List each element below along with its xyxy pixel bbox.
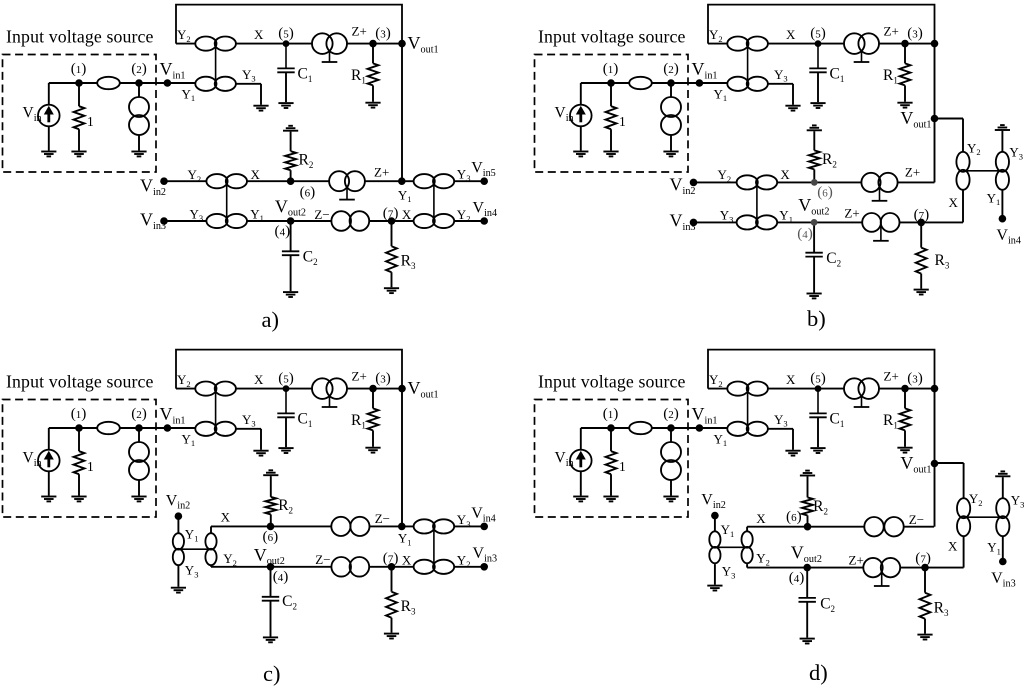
svg-text:Z+: Z+ [884,369,899,384]
nullator pair X-Y2 right (a) [414,214,455,228]
resistor R2 (a) [285,151,296,170]
node (7) (d) [921,564,929,572]
node Vout1 (d) [931,460,939,468]
node Vin1 (d) [696,424,704,432]
node Vin3 (c) [480,563,488,571]
wire node(5)-C1 (c) [285,389,287,414]
wire left pair to ground (d) [714,564,716,585]
wire node(2)-norator (a) [138,83,140,98]
norator at node(2) (d) [661,442,681,480]
wire Vin2 lead (d) [714,516,716,531]
resistor R1 (d) [900,408,911,430]
ground under C1 (a) [278,103,293,108]
wire X to node(3) (b) [768,43,935,45]
svg-text:Input voltage source: Input voltage source [538,27,686,47]
nullator (1)-(2) (b) [629,77,652,89]
nullator pair Y3-Y1 vert (d) [996,498,1009,536]
norator Z+ row2 (b) [861,173,897,201]
nullator pair Y2-X (d) [727,382,768,396]
norator at node(2) (b) [661,97,681,135]
node (1) (a) [75,79,83,87]
ground under C2 (d) [800,639,815,644]
wire R2-node(6) (c) [270,514,272,526]
wire ground-R2 (a) [290,132,292,152]
ground above Y3 pair (b) [995,125,1010,130]
wire corner down (b) [934,44,936,119]
node Vin4 (a) [480,217,488,225]
nullator pair Y3-Y1 vert (b) [996,152,1009,190]
node (2) (b) [667,79,675,87]
wire Vout1 right (d) [934,462,964,464]
current source Vin (a) [38,105,60,127]
svg-text:Input voltage source: Input voltage source [6,27,154,47]
node (7) (b) [917,219,925,227]
norator Z- row3 (c) [331,557,369,577]
wire pair connector (a) [215,44,217,84]
feedback wire (b) [708,5,935,44]
wire Y3 out (a) [236,83,262,85]
wire X to node(3) (a) [236,43,403,45]
svg-text:X: X [254,372,264,387]
resistor 1 (a) [74,106,85,129]
svg-text:X: X [251,167,261,182]
nullator pair Y3-Y1 mid (b) [737,215,778,229]
nullator pair Y1-Y3 (c) [195,422,236,436]
node (4) Vout2 (b) [811,219,818,226]
svg-text:Z+: Z+ [352,24,367,39]
input source dashed box (b) [535,55,689,173]
norator at node(2) (a) [129,97,149,135]
capacitor C1 (c) [277,413,294,417]
ground under R3 (a) [384,288,399,293]
svg-text:c): c) [263,661,280,686]
wire R1-ground (b) [904,85,906,101]
wire Vin top (c) [48,428,50,450]
ground under C1 (b) [810,103,825,108]
wire ground-Y3 pair (d) [1002,477,1004,498]
svg-text:X: X [402,553,412,568]
ground under R1 (a) [365,103,380,108]
svg-text:Input voltage source: Input voltage source [6,372,154,392]
node (3) (d) [901,385,909,393]
wire X down to node(7) (b) [962,190,964,223]
ground under C2 (c) [263,637,278,642]
norator Z- row2 (d) [864,517,903,536]
node (5) (b) [815,40,822,47]
ground above R2 (c) [263,470,278,475]
nullator pair Y1-Y3 vert (d) [709,531,720,563]
nullator pair Y2-X mid (a) [206,174,247,188]
wire Y3 down (c) [260,429,262,450]
wire Y1 down to Vin3 (d) [1002,536,1004,561]
input source dashed box (a) [3,55,157,173]
node Vin3 (a) [160,217,168,225]
node (4) Vout2 (a) [287,217,295,225]
wire Y2 in (d) [708,388,728,390]
wire node(1)-node(2)-Vin1 (d) [581,427,728,429]
nullator pair Y2-X vert (d) [957,498,970,536]
svg-text:X: X [948,538,958,553]
norator Z+ top (b) [844,33,879,62]
input source dashed box (c) [3,400,157,518]
wire C1-ground (c) [285,417,287,447]
svg-text:X: X [786,372,796,387]
node (7) (a) [388,217,396,225]
input source dashed box (d) [535,400,689,518]
ground under left pair (c) [171,588,186,593]
ground under norator (a) [131,152,146,157]
wire resistor-ground (c) [78,474,80,495]
resistor R3 (b) [916,248,927,274]
resistor R3 (a) [386,246,397,272]
resistor R2 (d) [802,497,813,515]
wire R1-ground (c) [372,430,374,446]
wire C2-ground (a) [290,255,292,291]
wire vert pair connector (c) [178,548,211,550]
wire R2-node(6) (d) [807,515,809,526]
wire R2-node(6) (a) [290,170,292,181]
node Vin3 (b) [690,219,698,227]
node (5) (c) [283,385,290,392]
current source Vin (c) [38,450,60,472]
svg-text:1: 1 [87,114,94,129]
wire row Vin3 (a) [164,220,484,222]
ground under resistor 1 (b) [603,152,618,157]
ground under Vin (b) [573,152,588,157]
svg-text:Z+: Z+ [844,206,859,221]
svg-text:1: 1 [619,114,626,129]
ground above R2 (a) [283,126,298,131]
node Vin2 (b) [690,179,698,187]
svg-text:Z+: Z+ [352,369,367,384]
wire down to Y2 pair (b) [962,119,964,152]
nullator pair X-Y2 vert (c) [205,533,216,565]
node Y1 (c) [398,523,406,531]
wire pair connector (b) [747,44,749,84]
wire Y1 down to Vin4 (b) [1001,190,1003,219]
svg-text:Z+: Z+ [849,552,864,567]
node Vin1 (b) [696,79,704,87]
svg-text:d): d) [809,660,828,685]
wire Vin top (b) [580,83,582,105]
ground under norator (b) [663,152,678,157]
wire node(4)-C2 (a) [290,221,292,251]
wire Y3 out (b) [768,83,794,85]
node Vin4 (b) [999,215,1007,223]
resistor 1 (d) [606,451,617,474]
wire C2-ground (c) [270,601,272,637]
ground under Vin (c) [41,497,56,502]
wire node(4)-C2 (b) [813,222,815,252]
nullator (1)-(2) (a) [97,77,120,89]
wire node(5)-C1 (b) [817,44,819,69]
wire node(1)-resistor (b) [610,83,612,106]
node (3) (c) [369,385,377,393]
wire node(7)-R3 (c) [391,567,393,592]
wire Vin top (d) [580,428,582,450]
capacitor C2 (d) [799,598,816,602]
wire Y3 out (d) [768,428,794,430]
wire Vin bottom (d) [580,471,582,495]
wire X pair up (c) [210,526,212,532]
wire node(1)-resistor (a) [78,83,80,106]
wire R1-ground (d) [904,430,906,446]
wire resistor-ground (a) [78,129,80,150]
node (5) (d) [815,385,822,392]
resistor R2 (b) [809,150,820,169]
ground under norator (d) [663,497,678,502]
ground at Y3 (a) [253,106,268,111]
node Vin2 (a) [160,177,168,185]
wire Vout1 down (a) [401,44,403,182]
wire row Vin2 (a) [164,180,402,182]
svg-text:Z−: Z− [909,512,924,527]
wire node(3)-R1 (d) [904,389,906,409]
wire Vin top (a) [48,83,50,105]
ground at Y3 (c) [253,451,268,456]
node Vout1 (c) [398,385,406,393]
node Vin1 (c) [164,424,172,432]
wire Vout1 right (b) [935,118,964,120]
junction node (b) [931,40,939,48]
wire node(3)-R1 (b) [904,44,906,64]
wire node(4)-C2 (d) [806,568,808,598]
feedback wire (a) [176,5,402,44]
ground at Y3 (b) [785,106,800,111]
wire pair connector right (c) [433,526,435,566]
wire R1-ground (a) [372,85,374,101]
wire node(5)-C1 (a) [285,44,287,69]
wire node(2)-norator (b) [670,83,672,98]
capacitor C1 (b) [809,68,826,72]
node (1) (b) [607,79,615,87]
ground under Vin (d) [573,497,588,502]
wire down to Y2 pair (d) [963,463,965,498]
wire pair connector mid (a) [226,181,228,221]
wire resistor-ground (d) [610,474,612,495]
node (6) (d) [804,523,812,531]
node (1) (c) [75,424,83,432]
norator Z+ top (a) [312,33,347,62]
wire vert pair connector (d) [715,546,747,548]
node (6) (c) [267,523,275,531]
svg-text:X: X [949,195,959,210]
feedback wire (d) [708,350,935,389]
resistor 1 (b) [606,106,617,129]
ground under C2 (a) [283,292,298,297]
svg-text:Z−: Z− [375,511,390,526]
wire X to node(3) (c) [236,388,403,390]
svg-text:Z+: Z+ [374,164,389,179]
wire node(7)-R3 (d) [924,568,926,593]
node Vin2 (c) [175,512,183,520]
wire R3-ground (c) [391,618,393,633]
resistor R1 (a) [368,63,379,85]
junction node (d) [931,385,939,393]
svg-text:Z−: Z− [315,552,330,567]
ground under C1 (c) [278,448,293,453]
wire node(1)-resistor (d) [610,428,612,451]
node (3) (b) [901,40,909,48]
current source Vin (b) [570,105,592,127]
node Vin2 (d) [711,512,719,520]
svg-text:Z−: Z− [314,207,329,222]
ground above Y3 pair (d) [995,471,1010,476]
wire Y2 in (a) [176,43,196,45]
norator at node(2) (c) [129,442,149,480]
resistor R1 (b) [900,63,911,85]
svg-text:X: X [254,27,264,42]
wire norator-ground (d) [670,480,672,496]
wire ground-R2 (d) [807,476,809,497]
nullator pair X-Y2 right (c) [414,560,455,574]
wire Y2 pair down (d) [746,564,748,568]
wire C1-ground (b) [817,72,819,102]
wire norator-ground (a) [138,135,140,151]
nullator pair Y2-X (a) [195,37,236,51]
wire Vin bottom (b) [580,126,582,150]
node (2) (c) [135,424,143,432]
wire node(1)-node(2)-Vin1 (b) [581,82,728,84]
ground under resistor 1 (c) [71,497,86,502]
feedback wire (c) [176,350,402,389]
resistor R2 (c) [265,497,276,515]
capacitor C1 (d) [809,413,826,417]
wire resistor-ground (b) [610,129,612,150]
wire pair connector mid (b) [756,182,758,222]
ground above R2 (b) [807,125,822,130]
nullator pair X-Y2 vert (d) [742,531,753,563]
svg-text:Z+: Z+ [905,164,920,179]
wire C1-ground (d) [817,417,819,447]
wire left pair to ground (c) [177,566,179,587]
nullator pair Y1-Y3 (a) [195,77,236,91]
nullator pair Y1-Y3 (b) [727,77,768,91]
wire Vout1 down (b) [934,119,936,183]
node (1) (d) [607,424,615,432]
ground under R1 (d) [897,448,912,453]
node (2) (a) [135,79,143,87]
wire pair connector (d) [747,389,749,429]
capacitor C2 (c) [262,597,279,601]
wire node(1)-resistor (c) [78,428,80,451]
resistor R1 (c) [368,408,379,430]
ground under R1 (b) [897,103,912,108]
svg-text:a): a) [262,307,279,332]
ground under C2 (b) [807,294,822,299]
ground under resistor 1 (d) [603,497,618,502]
ground under resistor 1 (a) [71,152,86,157]
wire node(3)-R1 (a) [372,44,374,64]
wire corner down (d) [934,389,936,464]
node (4) Vout2 (d) [803,564,811,572]
node Vout1 (a) [398,40,406,48]
wire node(7)-R3 (b) [920,222,922,247]
node (7) (c) [388,563,396,571]
nullator pair Y3-Y1 mid (a) [206,214,247,228]
wire node(5)-C1 (d) [817,389,819,414]
wire ground-R2 (c) [270,476,272,497]
wire ground-R2 (b) [813,131,815,150]
node Vin1 (a) [164,79,172,87]
wire C2-ground (d) [806,602,808,638]
wire Y2 pair down (c) [210,566,212,567]
wire vert pair connector right (d) [964,516,1003,518]
wire Y1 node to pair (a) [402,180,484,182]
node Vin5 (a) [480,177,488,185]
wire Y3 down (a) [260,84,262,105]
ground under norator (c) [131,497,146,502]
wire C2-ground (b) [813,257,815,293]
resistor 1 (c) [74,451,85,474]
wire Vin bottom (a) [48,126,50,150]
wire Y2 in (c) [176,388,196,390]
nullator (1)-(2) (d) [629,422,652,434]
nullator pair Y2-X vert (b) [956,152,969,190]
ground under Vin (a) [41,152,56,157]
svg-text:1: 1 [87,459,94,474]
wire row Vin2 (b) [694,181,935,183]
wire Y2 in (b) [708,43,728,45]
svg-text:X: X [402,207,412,222]
nullator pair Y1-Y3 (d) [727,422,768,436]
node (6) (b) [811,179,818,186]
wire C1-ground (a) [285,72,287,102]
ground at Y3 (d) [785,451,800,456]
wire node(2)-norator (d) [670,428,672,443]
ground under left pair (d) [707,586,722,591]
capacitor C1 (a) [277,68,294,72]
capacitor C2 (b) [805,253,822,257]
ground under R3 (d) [917,635,932,640]
svg-text:X: X [780,167,790,182]
nullator (1)-(2) (c) [97,422,120,434]
norator Z- mid (a) [331,211,369,231]
svg-text:X: X [756,511,766,526]
wire Y3 down (d) [792,429,794,450]
wire norator-ground (c) [138,480,140,496]
wire Vout1 down (d) [934,464,936,527]
ground above R2 (d) [800,471,815,476]
wire pair connector right (a) [433,181,435,221]
node (3) (a) [369,40,377,48]
wire node(1)-node(2)-Vin1 (a) [49,82,196,84]
node Y1 (a) [398,177,406,185]
wire Y1 node to pair (c) [402,525,484,527]
wire row X (d) [747,526,934,528]
resistor R3 (c) [386,592,397,618]
wire Y3 out (c) [236,428,262,430]
node Vin3 (d) [999,558,1007,566]
nullator pair Y2-X (b) [727,37,768,51]
wire vert pair connector (b) [963,170,1002,172]
node Vin4 (c) [480,523,488,531]
nullator pair Y1-Y3 right (a) [414,174,455,188]
wire row Vout2 (d) [747,567,964,569]
norator Z+ row3 (b) [862,213,899,241]
norator Z- row2 (c) [331,517,369,536]
norator Z+ mid (a) [329,171,365,199]
wire node(4)-C2 (c) [270,567,272,597]
wire row Vin3 (b) [694,221,964,223]
wire pair connector (c) [215,389,217,429]
wire node(7)-R3 (a) [391,221,393,246]
svg-text:Input voltage source: Input voltage source [538,372,686,392]
ground under C1 (d) [810,448,825,453]
norator Z+ row3 (d) [863,558,900,586]
wire R2-node(6) (b) [813,169,815,182]
nullator pair Y2-X mid (b) [737,175,778,189]
